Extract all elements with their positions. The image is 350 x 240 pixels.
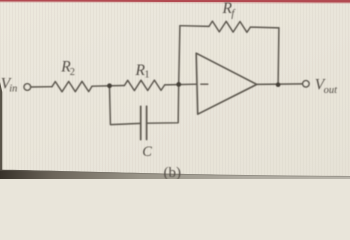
svg-text:in: in (9, 84, 17, 95)
terminal Vout open circle (303, 81, 309, 87)
wire R1 to node B to op-amp input (165, 83, 197, 86)
svg-text:1: 1 (144, 70, 149, 81)
svg-text:(b): (b) (164, 165, 182, 179)
resistor R1 (124, 80, 164, 91)
wire capacitor to node B (147, 84, 179, 123)
wire Vin terminal to R2 (31, 86, 52, 88)
svg-text:out: out (324, 85, 339, 96)
output node junction dot (276, 82, 281, 87)
resistor R2 (52, 81, 92, 92)
capacitor C left plate (140, 106, 142, 139)
node A junction dot (107, 83, 112, 88)
wire feedback right vertical to output node (277, 28, 280, 85)
terminal Vin open circle (24, 84, 31, 91)
resistor Rf (209, 21, 250, 32)
wire Rf to feedback right corner (250, 26, 279, 29)
wire op-amp output to Vout terminal (257, 83, 303, 86)
capacitor C right plate (146, 106, 148, 139)
wire R2 to node A to R1 (92, 85, 124, 88)
svg-text:C: C (142, 144, 152, 160)
wire feedback top left to Rf (180, 25, 209, 28)
wire node A down to capacitor (110, 86, 141, 125)
op-amp U1 triangle (196, 53, 257, 114)
wire feedback left vertical (179, 26, 180, 85)
node B junction dot (176, 82, 181, 87)
svg-text:2: 2 (70, 67, 75, 78)
op-amp inverting input minus sign (201, 83, 208, 85)
